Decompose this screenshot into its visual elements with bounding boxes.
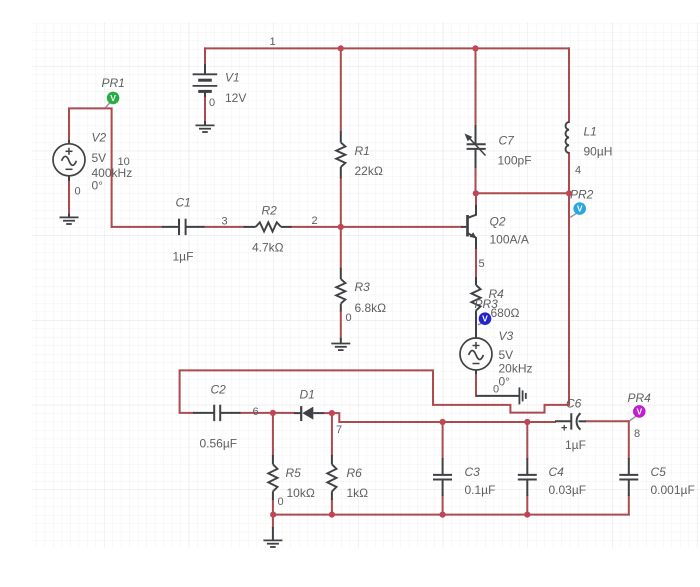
value 12V — [225, 91, 246, 105]
wire C5 bottom — [628, 496, 630, 515]
value 0.1uF — [465, 483, 496, 497]
node 5 — [479, 258, 485, 270]
capacitor C3 — [433, 458, 452, 496]
variable capacitor C7 — [465, 125, 486, 168]
resistor R5 — [268, 455, 277, 500]
junction C7 top on node 1 rail — [472, 45, 478, 51]
label C5 — [651, 465, 667, 479]
source V3 — [460, 319, 492, 374]
junction R1 top on node 1 rail — [338, 45, 344, 51]
wire R3 top lead — [340, 227, 342, 268]
value 0.03uF — [549, 483, 587, 497]
value V3 5V 20kHz 0deg — [499, 348, 533, 389]
capacitor C2 — [193, 405, 240, 421]
svg-text:C2: C2 — [211, 383, 227, 397]
resistor R4 — [471, 277, 480, 319]
wire R1 leads — [340, 48, 342, 227]
svg-text:V: V — [577, 204, 583, 214]
junction C4 bottom — [524, 511, 530, 517]
wire node 8 down to C5 — [628, 421, 630, 458]
probe PR4 — [630, 405, 646, 420]
wire C4 leads — [526, 422, 528, 515]
label R4 — [489, 287, 505, 301]
node 6 — [253, 406, 259, 418]
wire C2 right to node 6 — [240, 412, 273, 414]
label PR1 — [102, 76, 125, 90]
svg-text:PR3: PR3 — [475, 297, 499, 311]
svg-text:PR2: PR2 — [570, 188, 594, 202]
ground below R3 — [331, 338, 350, 350]
wire V2 to ground — [68, 182, 70, 214]
node 0 at R5 — [278, 496, 284, 508]
svg-text:5V: 5V — [92, 151, 107, 165]
wire R4 to V3 — [475, 319, 477, 338]
wire L1 bottom to PR2 junction — [568, 153, 570, 193]
svg-text:R5: R5 — [286, 466, 302, 480]
wire node 6 to D1 — [273, 412, 294, 414]
wire V1 to ground — [204, 98, 206, 121]
value 10kOhm — [287, 486, 315, 500]
svg-text:4: 4 — [575, 165, 581, 177]
value V2 5V 400kHz 0deg — [92, 151, 133, 193]
junction R6 bottom — [329, 511, 335, 517]
svg-text:0.03µF: 0.03µF — [549, 483, 587, 497]
node 1 — [270, 36, 276, 48]
junction C7 bottom / Q2 collector — [473, 190, 479, 196]
source V2 — [53, 140, 85, 182]
svg-text:8: 8 — [634, 428, 640, 440]
svg-text:C1: C1 — [176, 196, 191, 210]
svg-text:1: 1 — [270, 36, 276, 48]
diode D1 — [294, 406, 324, 421]
label PR3 — [475, 297, 499, 311]
label C4 — [549, 465, 565, 479]
svg-text:C5: C5 — [651, 465, 667, 479]
svg-text:0°: 0° — [92, 179, 104, 193]
svg-text:1kΩ: 1kΩ — [347, 486, 369, 500]
wire V1 top stub — [204, 48, 206, 64]
value 1uF — [173, 250, 194, 264]
label PR2 — [570, 188, 594, 202]
svg-text:Q2: Q2 — [490, 215, 506, 229]
svg-text:10kΩ: 10kΩ — [287, 486, 315, 500]
node 8 — [634, 428, 640, 440]
svg-text:V: V — [636, 406, 642, 416]
svg-text:C3: C3 — [465, 465, 481, 479]
svg-text:20kHz: 20kHz — [499, 362, 533, 376]
svg-text:R1: R1 — [355, 144, 370, 158]
wire emitter to R4 — [475, 249, 477, 277]
svg-text:0°: 0° — [499, 375, 511, 389]
value 0.001uF — [651, 483, 695, 497]
svg-text:5V: 5V — [499, 348, 514, 362]
junction node 2 at R1/R3 — [338, 224, 344, 230]
value 22kOhm — [355, 164, 383, 178]
wire V2 to PR1 corner — [69, 108, 112, 226]
junction node 4 at PR2 — [566, 190, 572, 196]
transistor Q2 — [461, 205, 477, 249]
node 4 — [575, 165, 581, 177]
wire R3 to ground — [340, 312, 342, 338]
resistor R1 — [336, 131, 345, 178]
svg-text:22kΩ: 22kΩ — [355, 164, 383, 178]
svg-text:0: 0 — [346, 312, 352, 324]
svg-text:V: V — [482, 314, 488, 324]
label R1 — [355, 144, 370, 158]
node 3 — [222, 216, 228, 228]
label R6 — [347, 466, 363, 480]
value 1kOhm — [347, 486, 369, 500]
svg-text:D1: D1 — [300, 388, 315, 402]
wire PR2 node down to feedback loop — [180, 193, 569, 413]
wire C6 right to node 8 — [586, 420, 629, 422]
svg-text:3: 3 — [222, 216, 228, 228]
label D1 — [300, 388, 315, 402]
junction node 7 at R6 top — [329, 410, 335, 416]
svg-text:2: 2 — [312, 215, 318, 227]
label C3 — [465, 465, 481, 479]
wire V3 bottom to ground — [475, 370, 477, 396]
junction node 6 at R5 top — [270, 410, 276, 416]
probe PR3 — [478, 312, 492, 325]
junction C4 top — [524, 419, 530, 425]
node 0 at V2 — [75, 186, 81, 198]
value 90uH — [584, 145, 613, 159]
label L1 — [584, 125, 597, 139]
junction C3 top — [440, 419, 446, 425]
probe PR2 — [570, 202, 586, 217]
svg-text:V3: V3 — [499, 329, 514, 343]
value 4.7kOhm — [252, 241, 284, 255]
label R2 — [262, 204, 278, 218]
ground below V1 — [196, 121, 215, 132]
svg-text:5: 5 — [479, 258, 485, 270]
capacitor C1 — [162, 219, 205, 235]
label C1 — [176, 196, 191, 210]
svg-text:V: V — [110, 93, 116, 103]
polarized capacitor C6 — [555, 413, 586, 434]
svg-text:V1: V1 — [225, 71, 240, 85]
svg-text:R6: R6 — [347, 466, 363, 480]
svg-text:PR4: PR4 — [628, 391, 652, 405]
svg-text:C4: C4 — [549, 465, 565, 479]
ground below V2 — [60, 214, 79, 225]
battery V1 — [193, 64, 218, 98]
value 6.8kOhm — [355, 301, 387, 315]
svg-text:0: 0 — [209, 97, 215, 109]
label R5 — [286, 466, 302, 480]
svg-text:1µF: 1µF — [173, 250, 194, 264]
wire bottom rail — [273, 514, 629, 516]
wire collector to C7 node — [475, 193, 477, 205]
capacitor C5 — [619, 458, 638, 496]
label V3 — [499, 329, 514, 343]
svg-text:0: 0 — [278, 496, 284, 508]
junction C3 bottom — [440, 511, 446, 517]
svg-text:0.001µF: 0.001µF — [651, 483, 695, 497]
svg-text:0: 0 — [75, 186, 81, 198]
svg-text:V2: V2 — [92, 131, 107, 145]
node 0 at V3 — [493, 384, 499, 396]
wire C3 leads — [442, 422, 444, 515]
svg-text:L1: L1 — [584, 125, 597, 139]
wire node 7 step to output rail — [332, 413, 555, 422]
label C7 — [499, 134, 516, 148]
svg-text:0.56µF: 0.56µF — [200, 437, 238, 451]
svg-text:R2: R2 — [262, 204, 278, 218]
capacitor C4 — [518, 458, 537, 496]
wire C7 branch — [475, 48, 477, 193]
inductor L1 — [566, 122, 569, 153]
wire node 2 segment R2 to Q2 base — [292, 226, 461, 228]
wire R5 branch — [272, 413, 274, 515]
svg-text:R3: R3 — [355, 280, 371, 294]
svg-text:4.7kΩ: 4.7kΩ — [252, 241, 284, 255]
resistor R2 — [244, 222, 292, 231]
svg-text:10: 10 — [118, 156, 130, 168]
label PR4 — [628, 391, 652, 405]
svg-text:100A/A: 100A/A — [490, 233, 529, 247]
wire node 3 segment C1 to R2 — [112, 226, 244, 228]
node 0 at R3 — [346, 312, 352, 324]
svg-text:1µF: 1µF — [565, 438, 586, 452]
node 7 — [336, 424, 342, 436]
value 680Ohm — [491, 306, 520, 320]
node 2 — [312, 215, 318, 227]
svg-text:7: 7 — [336, 424, 342, 436]
wire R5 bottom to ground — [272, 515, 274, 527]
value 0.56uF — [200, 437, 238, 451]
ground below R5 — [263, 527, 282, 547]
svg-text:C7: C7 — [499, 134, 516, 148]
resistor R3 — [336, 268, 345, 312]
svg-text:PR1: PR1 — [102, 76, 125, 90]
svg-text:0.1µF: 0.1µF — [465, 483, 496, 497]
label Q2 — [490, 215, 506, 229]
sideways ground at V3 — [476, 387, 526, 404]
node 10 — [118, 156, 130, 168]
value 1uF at C6 — [565, 438, 586, 452]
value 100pF — [498, 154, 532, 168]
wire node 4 horizontal C7 to PR2 — [476, 192, 570, 194]
label C6 — [566, 397, 582, 411]
svg-text:6: 6 — [253, 406, 259, 418]
svg-text:C6: C6 — [566, 397, 582, 411]
svg-text:12V: 12V — [225, 91, 246, 105]
wire D1 to node 7 — [324, 412, 332, 414]
junction R5 bottom — [270, 511, 276, 517]
wire L1 branch top — [568, 48, 570, 122]
label V2 — [92, 131, 107, 145]
svg-text:+: + — [561, 423, 567, 435]
label R3 — [355, 280, 371, 294]
wire R6 branch — [331, 413, 333, 514]
node 0 at V1 — [209, 97, 215, 109]
label V1 — [225, 71, 240, 85]
svg-text:100pF: 100pF — [498, 154, 532, 168]
value 100A/A — [490, 233, 529, 247]
svg-text:6.8kΩ: 6.8kΩ — [355, 301, 387, 315]
wire top rail node 1 — [205, 47, 569, 49]
label C2 — [211, 383, 227, 397]
resistor R6 — [327, 455, 336, 500]
probe PR1 — [106, 92, 120, 108]
svg-text:90µH: 90µH — [584, 145, 613, 159]
svg-text:0: 0 — [493, 384, 499, 396]
